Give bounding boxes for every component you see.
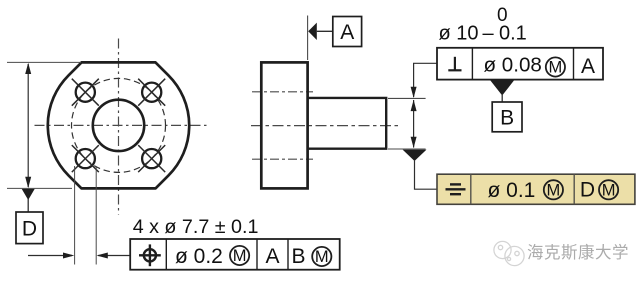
M circle 2 [312, 247, 331, 266]
hole bottom-left X [72, 145, 99, 172]
svg-text:ø 0.08: ø 0.08 [484, 53, 542, 76]
hole top-right X [138, 79, 165, 106]
datum D triangle [22, 189, 35, 200]
svg-text:M: M [549, 59, 563, 77]
svg-text:D: D [22, 218, 37, 241]
leader arrowhead down [411, 87, 417, 98]
shaft bottom extension line [388, 148, 426, 150]
hole extension line right [95, 166, 97, 265]
svg-text:ø 10: ø 10 [439, 23, 479, 45]
symmetry FCF box (highlighted) [437, 174, 635, 204]
right arrowhead at left ext line [63, 253, 74, 259]
svg-text:M: M [602, 181, 616, 199]
svg-text:M: M [233, 247, 247, 265]
perpendicularity FCF box [437, 48, 603, 80]
svg-text:D: D [580, 179, 595, 202]
svg-text:B: B [500, 107, 514, 130]
datum A leader [317, 30, 333, 32]
M circle 4 [544, 180, 563, 199]
svg-text:0.1: 0.1 [499, 23, 527, 45]
svg-text:海克斯康大学: 海克斯康大学 [527, 243, 629, 262]
dim arrow down [411, 137, 417, 148]
side view lower hole centerline [252, 158, 313, 160]
up arrowhead [25, 63, 31, 74]
datum A triangle [308, 23, 317, 40]
left vertical dimension line [27, 64, 29, 187]
datum A box [333, 17, 362, 47]
svg-text:B: B [291, 245, 305, 268]
bottom flat extension line [7, 187, 72, 189]
flange rectangle [261, 62, 307, 188]
perpendicularity leader [414, 63, 437, 97]
M circle 1 [230, 246, 249, 265]
datum D box [16, 212, 43, 244]
bolt circle (dashed) [72, 78, 166, 172]
hole dim line left part [28, 255, 72, 257]
front view vertical centerline [118, 39, 120, 215]
shaft top extension line [388, 97, 426, 99]
svg-text:–: – [483, 23, 495, 45]
hole top-left [76, 83, 95, 102]
front view horizontal centerline [35, 124, 211, 126]
perpendicularity symbol [448, 57, 461, 71]
symmetry symbol [446, 184, 466, 194]
hole top-left X [72, 79, 99, 106]
svg-text:M: M [547, 181, 561, 199]
svg-text:4 x ø 7.7 ± 0.1: 4 x ø 7.7 ± 0.1 [133, 216, 259, 238]
dia dim line [413, 100, 415, 148]
left arrowhead at right ext line [97, 253, 108, 259]
dim arrow up [411, 100, 417, 111]
svg-text:A: A [581, 55, 595, 78]
hole bottom-right X [138, 145, 165, 172]
M circle 3 [546, 57, 565, 76]
hole bottom-right [142, 149, 161, 168]
down arrowhead [25, 177, 31, 188]
side view upper hole centerline [252, 91, 313, 93]
datum B stem [501, 94, 503, 102]
watermark logo circles [494, 241, 524, 265]
svg-text:A: A [340, 21, 354, 44]
top flat extension line [7, 61, 81, 63]
datum D stem [27, 199, 29, 212]
svg-text:A: A [265, 245, 279, 268]
side view axis centerline [251, 125, 398, 127]
front view outline [48, 62, 189, 188]
svg-text:ø 0.1: ø 0.1 [488, 179, 536, 202]
M circle 5 [599, 180, 618, 199]
leader to symmetry FCF [415, 160, 437, 189]
datum B box [492, 102, 522, 132]
position FCF box [130, 239, 340, 270]
hole dim line right part [98, 255, 131, 257]
datum B triangle [490, 80, 515, 96]
datum B-side triangle (large, on bottom ext line) [403, 150, 427, 161]
center bore circle [93, 100, 144, 151]
position symbol [139, 244, 161, 266]
datum A extension line [307, 16, 309, 61]
svg-text:ø 0.2: ø 0.2 [175, 245, 223, 268]
svg-text:M: M [315, 248, 329, 266]
hole top-right [142, 83, 161, 102]
hole extension line left [74, 166, 76, 265]
hole bottom-left [76, 149, 95, 168]
shaft outline [308, 98, 387, 149]
